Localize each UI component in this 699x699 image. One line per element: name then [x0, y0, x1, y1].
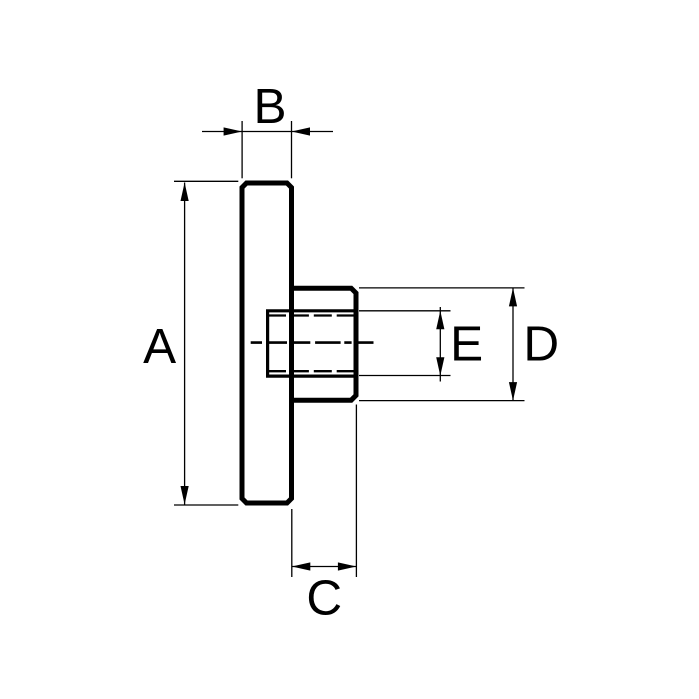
svg-text:E: E — [450, 316, 483, 371]
svg-text:A: A — [143, 319, 176, 374]
svg-text:D: D — [523, 317, 559, 372]
svg-text:B: B — [253, 79, 286, 134]
svg-text:C: C — [306, 571, 342, 626]
